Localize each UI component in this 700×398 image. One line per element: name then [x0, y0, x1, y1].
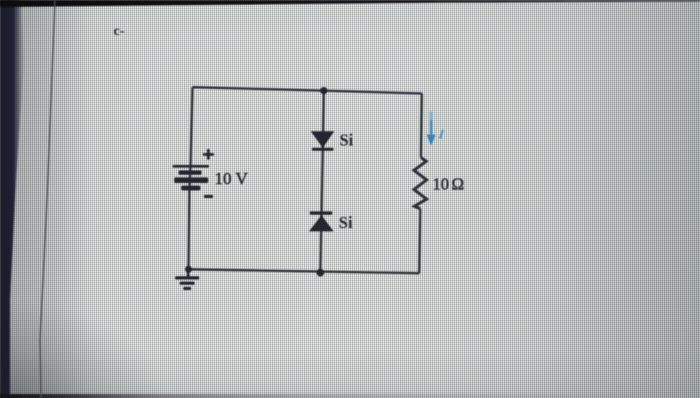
wire: right branch above resistor	[420, 94, 423, 158]
junction node dot: top middle	[320, 87, 327, 94]
current arrow I (blue)	[427, 112, 446, 146]
wire: bottom, from ground node to right corner	[189, 269, 420, 273]
wire: right branch below resistor	[419, 209, 420, 273]
svg-text:Si: Si	[339, 213, 353, 232]
diode D2 (bottom, Si) cathode bar	[310, 211, 333, 214]
dark bar along bottom-left edge	[0, 394, 640, 398]
svg-text:Ω: Ω	[452, 175, 465, 194]
wire: left branch (through battery)	[189, 87, 193, 269]
wire: middle branch (through diodes)	[320, 91, 324, 273]
junction node dot: bottom middle	[317, 269, 325, 277]
svg-text:Si: Si	[340, 131, 354, 150]
battery plus sign	[203, 153, 214, 156]
svg-text:10 V: 10 V	[215, 169, 249, 188]
junction node dot: bottom left at ground	[185, 266, 192, 273]
diode D1 cathode bar	[312, 148, 334, 151]
page edge line on the left	[40, 0, 55, 398]
svg-text:c-: c-	[114, 24, 125, 39]
diode D1 (top, Si) triangle pointing down	[311, 131, 335, 147]
diode D2 triangle pointing up	[309, 215, 334, 231]
resistor R 10 ohm zigzag	[414, 157, 427, 208]
wire: top, from left corner to right corner	[193, 87, 422, 93]
black bar across the top edge	[0, 0, 700, 7]
ground symbol bars	[187, 269, 190, 278]
battery minus sign	[204, 195, 213, 198]
svg-text:10: 10	[433, 175, 450, 194]
battery E 10V plates	[173, 165, 209, 168]
dark screen bezel strip along left edge	[0, 0, 24, 398]
